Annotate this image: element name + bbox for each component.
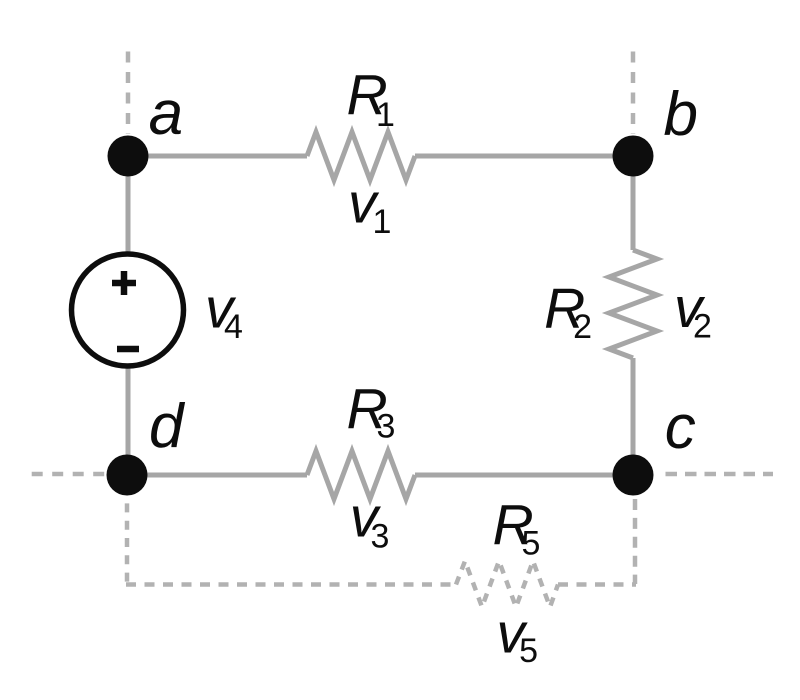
svg-text:4: 4 [224, 308, 243, 346]
resistor R3 [307, 451, 415, 499]
voltage source v4 circle [72, 254, 184, 366]
wire source to d [126, 366, 131, 475]
dashed wire below c [633, 499, 638, 584]
wire R3 to c [415, 473, 633, 478]
wire d to R3 [128, 473, 307, 478]
plus sign [112, 271, 136, 295]
resistor R1 [307, 132, 415, 180]
svg-text:5: 5 [519, 632, 538, 670]
resistor R2 [609, 250, 657, 358]
wire R1 to b [415, 154, 633, 159]
node b [613, 136, 654, 177]
resistor R5 (dashed) [456, 561, 558, 607]
node c [613, 455, 654, 496]
svg-text:5: 5 [522, 525, 541, 563]
dashed stub right of node c [666, 472, 774, 477]
dashed wire below d [125, 503, 130, 584]
wire b to R2 [631, 156, 636, 250]
dashed bottom wire d-side [126, 582, 456, 587]
minus sign [117, 346, 139, 353]
dashed stub above node b [631, 52, 636, 135]
node a [108, 136, 149, 177]
dashed bottom wire c-side [558, 582, 636, 587]
node d [107, 455, 148, 496]
svg-text:2: 2 [693, 308, 712, 346]
wire a to R1 [128, 154, 307, 159]
wire a down to source [126, 156, 131, 254]
svg-text:b: b [664, 80, 698, 149]
wire R2 to c [631, 358, 636, 475]
svg-text:1: 1 [373, 203, 392, 241]
svg-text:a: a [149, 79, 183, 148]
dashed stub left of node d [32, 472, 106, 477]
svg-text:3: 3 [377, 408, 396, 446]
svg-text:d: d [149, 392, 186, 461]
svg-text:c: c [665, 393, 696, 462]
svg-text:1: 1 [376, 96, 395, 134]
dashed stub above node a [126, 52, 131, 135]
svg-text:2: 2 [573, 308, 592, 346]
svg-text:3: 3 [371, 518, 390, 556]
